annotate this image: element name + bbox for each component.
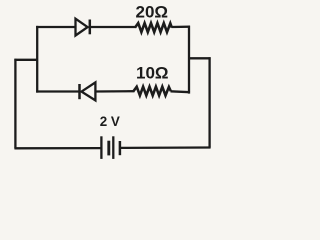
wire middle branch middle segment	[95, 90, 134, 93]
svg-text:2 V: 2 V	[100, 114, 120, 129]
battery B1 2V	[101, 136, 120, 159]
wire middle branch left segment	[36, 90, 79, 92]
wire top branch left segment	[36, 26, 76, 28]
wire top branch middle segment	[90, 26, 136, 28]
wire inner left vertical	[36, 26, 38, 93]
wire bottom rail right of battery	[120, 146, 211, 149]
diode D2 (conducting direction left)	[80, 82, 96, 100]
wire outer right vertical	[208, 57, 210, 147]
diode D1 (conducting direction right)	[76, 19, 90, 36]
wire inner right vertical	[188, 26, 190, 94]
wire bottom rail left of battery	[14, 147, 101, 149]
wire middle branch right segment	[171, 90, 191, 93]
wire right jog	[188, 57, 211, 59]
svg-text:10Ω: 10Ω	[136, 64, 169, 83]
svg-text:20Ω: 20Ω	[136, 3, 169, 22]
resistor R1 20 ohm zigzag	[135, 23, 172, 32]
wire outer left vertical	[14, 59, 16, 149]
wire top branch right segment	[172, 26, 191, 29]
wire left jog	[14, 59, 38, 61]
resistor R2 10 ohm zigzag	[134, 87, 171, 96]
